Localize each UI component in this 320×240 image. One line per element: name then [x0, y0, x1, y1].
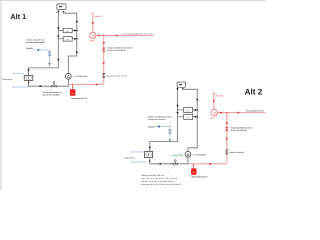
- svg-text:Framl.giv: Framl.giv: [172, 154, 178, 157]
- svg-text:1: 1: [229, 139, 230, 142]
- circulation pump P1: [65, 73, 71, 79]
- svg-text:VP Pådrag/filter: VP Pådrag/filter: [193, 153, 207, 156]
- svg-text:Från VVB: Från VVB: [95, 15, 103, 18]
- wire: red supply line to system: [96, 34, 154, 36]
- node: blue arrow on drop pipe: [169, 139, 171, 141]
- radiator 2: [63, 37, 72, 42]
- wire: HX bottom stub: [149, 158, 151, 164]
- red flow arrow down: [226, 138, 228, 140]
- node below HX: [28, 82, 29, 83]
- svg-text:1: 1: [98, 85, 99, 88]
- svg-text:1: 1: [105, 63, 106, 66]
- svg-text:1: 1: [78, 52, 79, 55]
- red flow arrow right: [237, 111, 239, 113]
- svg-text:Alt 1: Alt 1: [10, 12, 26, 21]
- tap cold water pipe (blue): [34, 49, 50, 51]
- future supply sensor valve (green dashed): [180, 154, 183, 157]
- svg-text:VS Pådrag/filter: VS Pådrag/filter: [74, 75, 88, 78]
- wire: left riser stub from vessel: [57, 10, 59, 13]
- flow arrow down on left pipe: [57, 27, 59, 29]
- motor valve V2: [173, 163, 177, 165]
- wire: red bottom return to junction: [188, 162, 227, 164]
- blue flow arrow left: [157, 125, 160, 127]
- svg-text:styr om man önskar. På vintern: styr om man önskar. På vintern: [141, 177, 178, 180]
- motor valve V1: [52, 85, 56, 87]
- shut-off valve on blue pipe: [48, 52, 51, 55]
- flow arrow down on left pipe: [57, 59, 59, 61]
- hot water unit VV (red square): [191, 168, 196, 174]
- wire: left return pipe: [150, 87, 178, 151]
- flow arrow down on left pipe: [57, 36, 59, 38]
- wire: pump to bottom junction: [187, 157, 189, 164]
- red flow arrow down: [103, 42, 105, 44]
- svg-text:1: 1: [78, 30, 79, 33]
- wire: bottom gray pipe HX to pump junction: [29, 85, 69, 87]
- node: vessel right connection: [63, 11, 65, 13]
- svg-text:VP VVC: VP VVC: [89, 40, 96, 43]
- svg-text:1: 1: [56, 81, 57, 84]
- flow arrow down into heat exchanger: [149, 147, 151, 149]
- balancing valve (injusteringsventil): [226, 150, 228, 154]
- svg-text:1: 1: [42, 46, 43, 49]
- red flow arrow right: [116, 34, 118, 36]
- svg-text:när den inte används: när den inte används: [107, 49, 126, 52]
- svg-text:Till värmesystem och VV: Till värmesystem och VV: [246, 110, 265, 113]
- svg-text:1: 1: [228, 114, 229, 117]
- flow arrow right on bottom pipe: [40, 85, 42, 87]
- svg-text:sommaren när den inte används: sommaren när den inte används: [26, 41, 45, 44]
- svg-text:Stängs manuellt eller via: Stängs manuellt eller via: [141, 174, 165, 177]
- circulation pump P2: [185, 151, 191, 157]
- VVC pump (red circle): [211, 109, 218, 116]
- shut-off valve on red drop: [226, 127, 228, 130]
- node below HX: [149, 161, 150, 162]
- svg-text:1: 1: [199, 116, 200, 119]
- heat exchanger HX2: [145, 151, 153, 157]
- district heating supply pipe (blue): [13, 72, 24, 74]
- blue flow arrow left: [37, 49, 39, 51]
- page frame top edge: [0, 0, 266, 2]
- shut-off valve on red drop: [103, 48, 105, 51]
- radiator 2: [184, 114, 193, 119]
- wire: bottom gray pipe HX to pump junction: [150, 163, 188, 165]
- red flow arrow right: [98, 34, 100, 36]
- node: vessel left connection: [58, 11, 60, 13]
- svg-text:1: 1: [199, 89, 200, 92]
- svg-text:Tappvarmvatten och VVC: Tappvarmvatten och VVC: [191, 176, 208, 179]
- heat exchanger HX1: [24, 75, 33, 80]
- svg-text:1: 1: [162, 123, 163, 126]
- wire: blue drop pipe: [49, 50, 51, 68]
- node: vessel right connection: [182, 88, 184, 90]
- red flow arrow down: [92, 22, 94, 24]
- wire: red drop pipe: [103, 35, 105, 82]
- svg-text:1: 1: [199, 99, 200, 102]
- shut-off valve on blue pipe: [168, 130, 171, 133]
- svg-text:när den inte används: när den inte används: [148, 118, 166, 121]
- wire: red stub to VV unit: [192, 164, 194, 169]
- svg-text:Rad: Rad: [66, 30, 69, 33]
- wire: blue drop pipe: [169, 127, 171, 142]
- svg-text:avlastas helt eller delvis om: avlastas helt eller delvis om så önskas?: [141, 183, 182, 186]
- red flow arrow down: [226, 122, 228, 124]
- red flow arrow right: [220, 111, 222, 113]
- flow arrow down on left pipe: [176, 112, 178, 114]
- svg-text:Fjärrvärme: Fjärrvärme: [125, 157, 136, 160]
- wire: red bottom return to junction: [69, 82, 104, 84]
- svg-text:1: 1: [61, 59, 62, 62]
- balancing valve (injusteringsventil): [103, 73, 105, 77]
- flow arrow down below vessel: [176, 88, 178, 90]
- flow arrow down on right pipe: [76, 21, 78, 23]
- red flow arrow down: [213, 100, 215, 102]
- expansion vessel box: [57, 4, 66, 10]
- wire: supply pipe from vessel right: [64, 12, 77, 74]
- svg-text:VP VVC: VP VVC: [209, 117, 215, 120]
- flow arrow down into heat exchanger: [27, 69, 29, 71]
- wire: pump to bottom junction: [68, 79, 70, 86]
- leader to valve note: [168, 165, 174, 173]
- node: tee to drop: [103, 35, 104, 36]
- radiator 1: [184, 107, 193, 112]
- wire: left return pipe: [29, 12, 59, 75]
- leader from note to valve: [169, 121, 172, 129]
- leader to valve note: [50, 88, 53, 92]
- flow arrow right on bottom pipe: [160, 163, 162, 165]
- svg-text:öppnas den och värmepumpen: öppnas den och värmepumpen: [141, 180, 174, 183]
- flow arrow down on right pipe: [76, 52, 78, 54]
- svg-text:Till värmesystem och VV: Till värmesystem och VV: [122, 32, 153, 35]
- tap cold water pipe (blue): [156, 126, 170, 128]
- wire: supply pipe from vessel right: [183, 89, 197, 152]
- hot water unit VV (red square): [70, 89, 76, 96]
- flow arrow down on right pipe: [196, 99, 198, 101]
- page frame left edge: [0, 0, 2, 190]
- svg-text:1: 1: [78, 21, 79, 24]
- wire: from VVB drop: [92, 14, 94, 32]
- svg-text:Injusteringsventil: Injusteringsventil: [229, 151, 244, 154]
- svg-text:Rad: Rad: [186, 109, 189, 112]
- district heating return pipe (blue): [132, 161, 147, 163]
- svg-text:Alt 2: Alt 2: [245, 88, 263, 97]
- red flow arrow left: [209, 163, 212, 165]
- leader from note to valve: [41, 44, 49, 52]
- svg-text:1: 1: [78, 38, 79, 41]
- flow arrow down on left pipe: [176, 105, 178, 107]
- expansion vessel box: [177, 82, 186, 87]
- radiator 1: [63, 28, 72, 32]
- red flow arrow down: [103, 62, 105, 64]
- node: tee to drop: [226, 112, 227, 113]
- svg-text:1: 1: [211, 165, 212, 168]
- svg-text:1: 1: [105, 36, 106, 39]
- wire: red supply line to system: [218, 112, 266, 114]
- svg-text:styr om man så önskar?: styr om man så önskar?: [42, 94, 61, 97]
- svg-text:när den inte används: när den inte används: [230, 129, 246, 132]
- node: blue arrow on drop pipe: [49, 63, 51, 65]
- svg-text:Från VVB: Från VVB: [216, 94, 224, 97]
- district heating supply pipe (blue): [132, 151, 145, 153]
- VVC pump (red circle): [90, 32, 96, 38]
- wire: red stub to VV unit: [72, 84, 74, 89]
- wire: from VVB drop: [213, 93, 215, 109]
- wire: HX bottom stub: [28, 80, 30, 86]
- district heating return pipe (blue): [13, 86, 28, 88]
- svg-text:Tappvarmvatten och VVC: Tappvarmvatten och VVC: [71, 97, 89, 100]
- svg-text:1: 1: [105, 43, 106, 46]
- svg-text:Tappkallv.: Tappkallv.: [148, 126, 156, 129]
- svg-text:Fjärrvärme: Fjärrvärme: [2, 78, 13, 81]
- svg-text:1: 1: [101, 32, 102, 35]
- svg-text:1: 1: [223, 110, 224, 113]
- svg-text:1: 1: [199, 109, 200, 112]
- wire: red drop pipe: [226, 113, 228, 162]
- svg-text:Rad: Rad: [66, 38, 69, 41]
- red flow arrow left: [95, 83, 97, 85]
- svg-text:Tappkallv.: Tappkallv.: [26, 47, 34, 50]
- svg-text:1: 1: [78, 11, 79, 14]
- svg-text:Injusteringsventil: Injusteringsventil: [106, 75, 127, 78]
- svg-text:Rad: Rad: [186, 116, 189, 119]
